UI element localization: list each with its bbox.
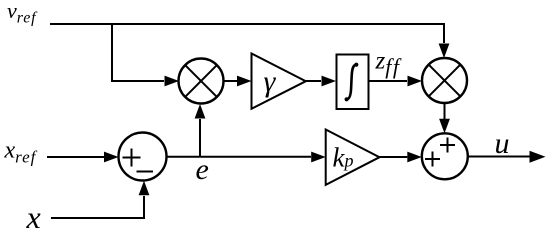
wire integrator to multiplier U2	[369, 80, 408, 82]
wire arrow output u	[530, 151, 546, 163]
svg-text:vref: vref	[7, 0, 38, 27]
gain amplifier gamma triangle	[252, 54, 306, 109]
wire arrow into integrator	[322, 76, 337, 87]
wire gain to integrator	[306, 80, 321, 82]
wire branch e up to multiplier U1	[199, 119, 201, 157]
wire U2 output down to summer S2	[444, 103, 446, 119]
wire arrow into gain k_p	[311, 152, 326, 163]
svg-text:zff: zff	[375, 48, 402, 80]
wire arrow into multiplier U2 left	[408, 76, 423, 87]
gain amplifier k_p triangle	[326, 130, 380, 185]
multiplier U2	[422, 58, 467, 103]
svg-text:kp: kp	[333, 142, 354, 172]
wire k_p to summer S2	[380, 156, 408, 158]
wire branch from v_ref down to multiplier U1	[112, 24, 164, 81]
wire arrow into multiplier U2 top	[439, 44, 450, 59]
wire summer S2 output	[468, 156, 530, 158]
wire x_ref to summer S1	[47, 156, 104, 158]
wire arrow into summer S2 top	[439, 119, 450, 134]
svg-text:x: x	[26, 199, 41, 234]
summer S1 plus sign	[123, 157, 141, 159]
wire arrow into summer S2 left	[407, 152, 422, 163]
summer S1	[119, 133, 167, 181]
svg-text:u: u	[495, 127, 510, 160]
wire arrow into multiplier U1 bottom	[195, 104, 206, 119]
wire arrow into summer S1 left	[104, 152, 119, 163]
wire arrow into summer S1 bottom	[139, 181, 150, 196]
summer S2 plus sign left	[425, 158, 440, 160]
wire arrow into gain triangle	[237, 76, 252, 87]
wire U1 output to gain	[224, 80, 238, 82]
label integral sign	[347, 65, 357, 99]
wire arrow into multiplier U1 left	[165, 76, 180, 87]
multiplier U1	[179, 59, 224, 104]
summer S2	[422, 133, 468, 179]
svg-text:xref: xref	[4, 138, 38, 167]
wire v_ref horizontal	[50, 24, 444, 43]
summer S1 minus sign	[137, 171, 154, 173]
svg-text:e: e	[196, 153, 209, 186]
wire e from summer S1 to gain k_p	[167, 156, 312, 158]
svg-text:γ: γ	[264, 65, 277, 98]
summer S2 plus sign top	[440, 144, 455, 146]
wire x input up into summer S1 bottom	[51, 196, 144, 218]
integrator block	[337, 55, 369, 110]
